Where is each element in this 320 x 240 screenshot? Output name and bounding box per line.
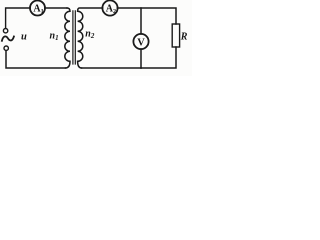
ac sine symbol [2,36,14,40]
terminal lower [4,46,8,50]
wire top-left: terminal to corner to A1 [6,8,31,28]
ammeter A2 [102,0,117,15]
transformer core [73,11,75,64]
transformer primary winding n1 [65,8,70,68]
wire bottom-left: primary to corner to terminal [6,51,66,68]
wire resistor bottom to corner to junction [141,47,176,68]
wire A1 to primary top [45,7,67,9]
terminal upper [3,29,7,33]
resistor R [172,24,179,47]
svg-text:u: u [21,31,27,42]
wire V branch top [140,8,142,34]
transformer secondary winding n2 [78,8,103,68]
voltmeter V [133,34,148,49]
wire bottom: junction to secondary [82,67,142,69]
wire A2 to top-right corner and down to resistor [117,8,176,24]
svg-text:R: R [180,31,188,42]
wire V branch bottom [140,49,142,68]
svg-text:V: V [137,37,145,48]
ammeter A1 [30,1,45,16]
